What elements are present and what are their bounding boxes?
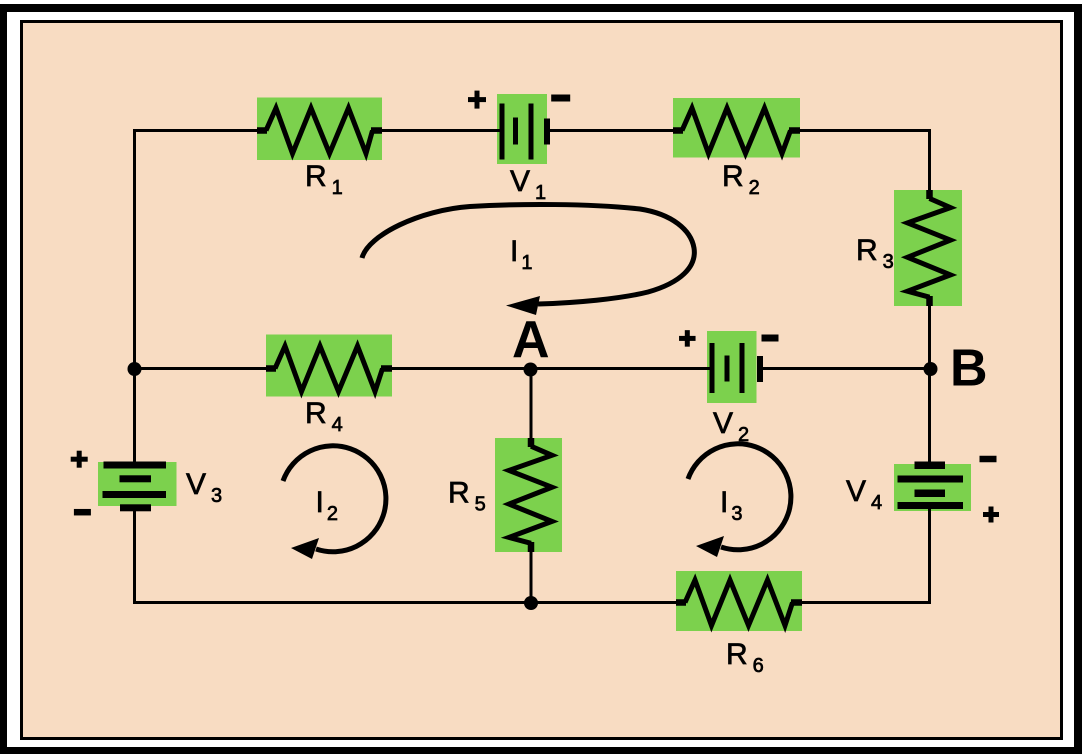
svg-text:B: B — [950, 340, 988, 398]
svg-text:A: A — [512, 311, 550, 369]
